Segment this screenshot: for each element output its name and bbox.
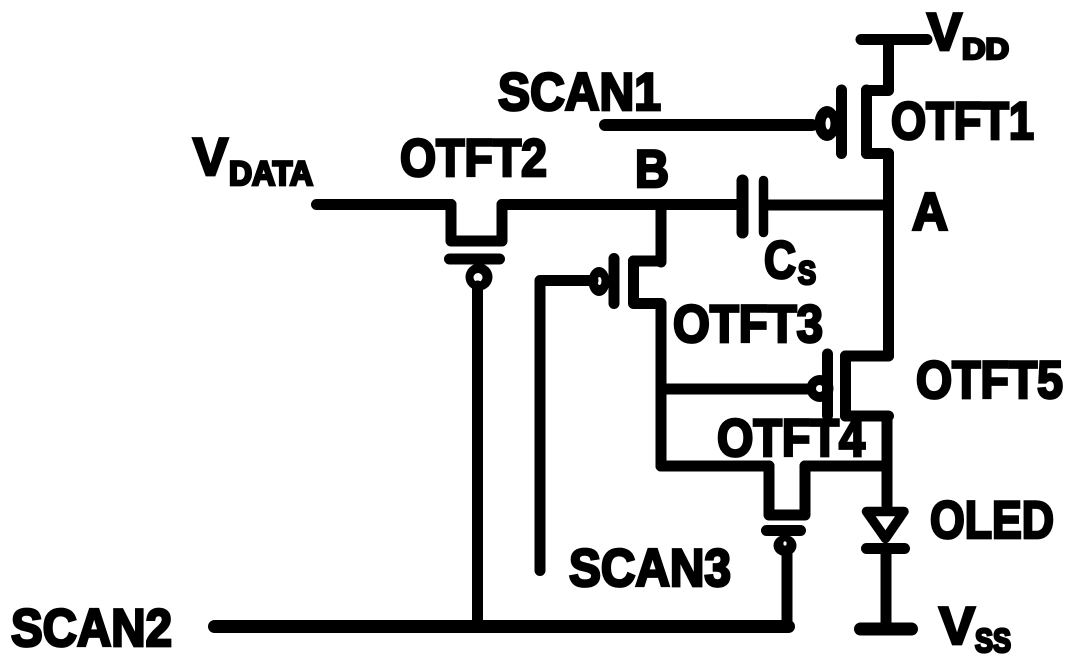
transistor OTFT3 gate bubble xyxy=(589,267,610,296)
transistor OTFT1 gate bubble xyxy=(815,106,840,141)
wire SCAN1 to OTFT1 gate xyxy=(605,119,812,131)
wire VDD top xyxy=(861,34,927,45)
transistor OTFT5 drain step xyxy=(846,351,889,362)
transistor OTFT4 channel dip xyxy=(769,466,805,515)
svg-text:OTFT1: OTFT1 xyxy=(891,92,1034,151)
svg-text:OTFT4: OTFT4 xyxy=(717,409,865,468)
transistor OTFT5 source step xyxy=(846,411,889,422)
svg-text:DD: DD xyxy=(962,33,1009,66)
svg-text:OTFT5: OTFT5 xyxy=(916,351,1063,410)
transistor OTFT1 source step xyxy=(867,148,889,159)
transistor OTFT5 channel bar xyxy=(840,356,851,416)
wire OLED cathode lead xyxy=(881,549,892,623)
wire OTFT4 gate lead to SCAN2 xyxy=(782,553,793,626)
wire CS to node A xyxy=(765,200,888,211)
transistor OTFT3 source step xyxy=(634,298,662,309)
wire node B horizontal xyxy=(502,199,736,210)
svg-text:OLED: OLED xyxy=(930,491,1054,550)
transistor OTFT2 gate bubble xyxy=(466,264,493,291)
svg-text:B: B xyxy=(635,140,669,199)
svg-text:DATA: DATA xyxy=(229,155,313,193)
transistor OTFT2 gate bar xyxy=(450,254,500,265)
transistor OTFT3 gate bar xyxy=(609,259,620,304)
transistor OTFT3 drain step xyxy=(634,256,662,267)
svg-text:C: C xyxy=(764,231,796,290)
wire VDATA lead xyxy=(317,199,452,210)
capacitor CS right plate xyxy=(759,181,769,233)
transistor OTFT2 channel dip xyxy=(451,205,502,242)
wire SCAN3 to OTFT3 gate xyxy=(540,281,593,571)
wire OTFT3 to OTFT4 drain xyxy=(661,461,769,472)
svg-text:SCAN2: SCAN2 xyxy=(11,599,172,658)
diode OLED triangle xyxy=(867,512,905,539)
diode OLED cathode bar xyxy=(867,543,905,554)
svg-text:S: S xyxy=(798,255,816,291)
svg-text:OTFT2: OTFT2 xyxy=(400,129,547,188)
svg-text:OTFT3: OTFT3 xyxy=(673,295,823,354)
capacitor CS left plate xyxy=(737,181,749,233)
transistor OTFT4 gate bar xyxy=(767,525,801,536)
svg-text:V: V xyxy=(939,597,975,656)
svg-text:A: A xyxy=(912,183,948,242)
wire OTFT2 gate lead to SCAN2 xyxy=(472,286,483,626)
wire rail OTFT5 to OLED xyxy=(882,416,893,506)
wire OTFT3 source down xyxy=(656,304,667,467)
transistor OTFT1 gate bar xyxy=(836,90,847,154)
transistor OTFT5 gate bar xyxy=(822,354,833,416)
wire node B vertical to OTFT3 xyxy=(656,205,667,262)
wire right rail node A segment xyxy=(883,154,894,357)
svg-text:V: V xyxy=(193,128,228,187)
ground VSS terminal bar xyxy=(861,623,912,636)
wire OTFT4 source to rail xyxy=(805,461,887,472)
transistor OTFT1 channel bar xyxy=(861,90,872,154)
svg-text:SCAN3: SCAN3 xyxy=(569,539,731,598)
svg-text:SCAN1: SCAN1 xyxy=(498,63,661,122)
transistor OTFT5 gate bubble xyxy=(807,375,834,402)
wire SCAN2 bus xyxy=(215,620,789,633)
svg-text:V: V xyxy=(927,3,962,62)
svg-text:SS: SS xyxy=(975,622,1011,659)
transistor OTFT1 drain lead xyxy=(867,40,889,91)
transistor OTFT4 gate bubble xyxy=(774,535,797,556)
wire to OTFT5 gate xyxy=(661,384,810,395)
transistor OTFT3 channel bar xyxy=(628,261,639,303)
